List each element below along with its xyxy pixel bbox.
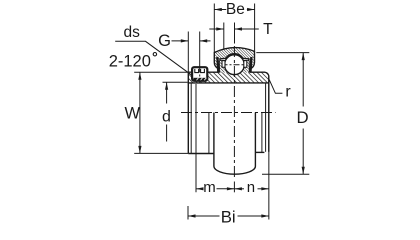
svg-text:Bi: Bi <box>221 207 236 226</box>
sleeve bottom left edge <box>188 153 214 155</box>
svg-text:T: T <box>263 21 273 38</box>
sleeve right chamfer line <box>265 83 267 152</box>
r label + leader <box>268 78 282 94</box>
screw socket marks <box>195 69 205 73</box>
D dimension <box>256 53 309 175</box>
d dimension <box>163 82 188 141</box>
svg-text:Be: Be <box>226 1 245 18</box>
svg-text:W: W <box>125 104 141 122</box>
Bi dimension <box>188 206 269 220</box>
screw axis centerline <box>199 68 201 86</box>
ball horizontal centerline <box>222 64 248 66</box>
seal right <box>249 57 252 72</box>
outer ring lower silhouette (cup) <box>214 113 256 175</box>
seal edge lower left <box>208 113 210 154</box>
W dimension <box>134 72 188 153</box>
Be dimension <box>214 4 254 53</box>
inner ring hub section (band, hatched wide) <box>188 61 268 83</box>
sleeve left face lower <box>187 83 189 154</box>
cage left <box>222 61 225 68</box>
vertical centerline <box>233 46 235 179</box>
m/n dimension <box>196 75 269 219</box>
ball <box>225 55 245 75</box>
svg-text:2-120: 2-120 <box>109 53 151 71</box>
T dimension <box>209 23 258 50</box>
svg-text:D: D <box>297 108 309 127</box>
screw thread bar <box>194 78 206 81</box>
outer ring O1 (section, hatched) <box>214 48 254 69</box>
sleeve right face lower <box>268 83 270 152</box>
svg-text:ds: ds <box>124 24 141 41</box>
sleeve left face chamfer line <box>190 83 192 154</box>
cage right <box>244 61 247 68</box>
svg-text:m: m <box>203 179 216 196</box>
svg-text:r: r <box>285 84 291 101</box>
svg-text:G: G <box>158 32 171 50</box>
svg-text:n: n <box>247 179 255 196</box>
sleeve bottom right edge <box>255 151 264 153</box>
seal edge lower right <box>261 113 263 153</box>
svg-text:d: d <box>162 109 171 126</box>
G dimension <box>172 32 211 72</box>
horizontal centerline <box>181 112 276 114</box>
seal left <box>216 57 219 72</box>
set screw S1 <box>192 67 207 81</box>
